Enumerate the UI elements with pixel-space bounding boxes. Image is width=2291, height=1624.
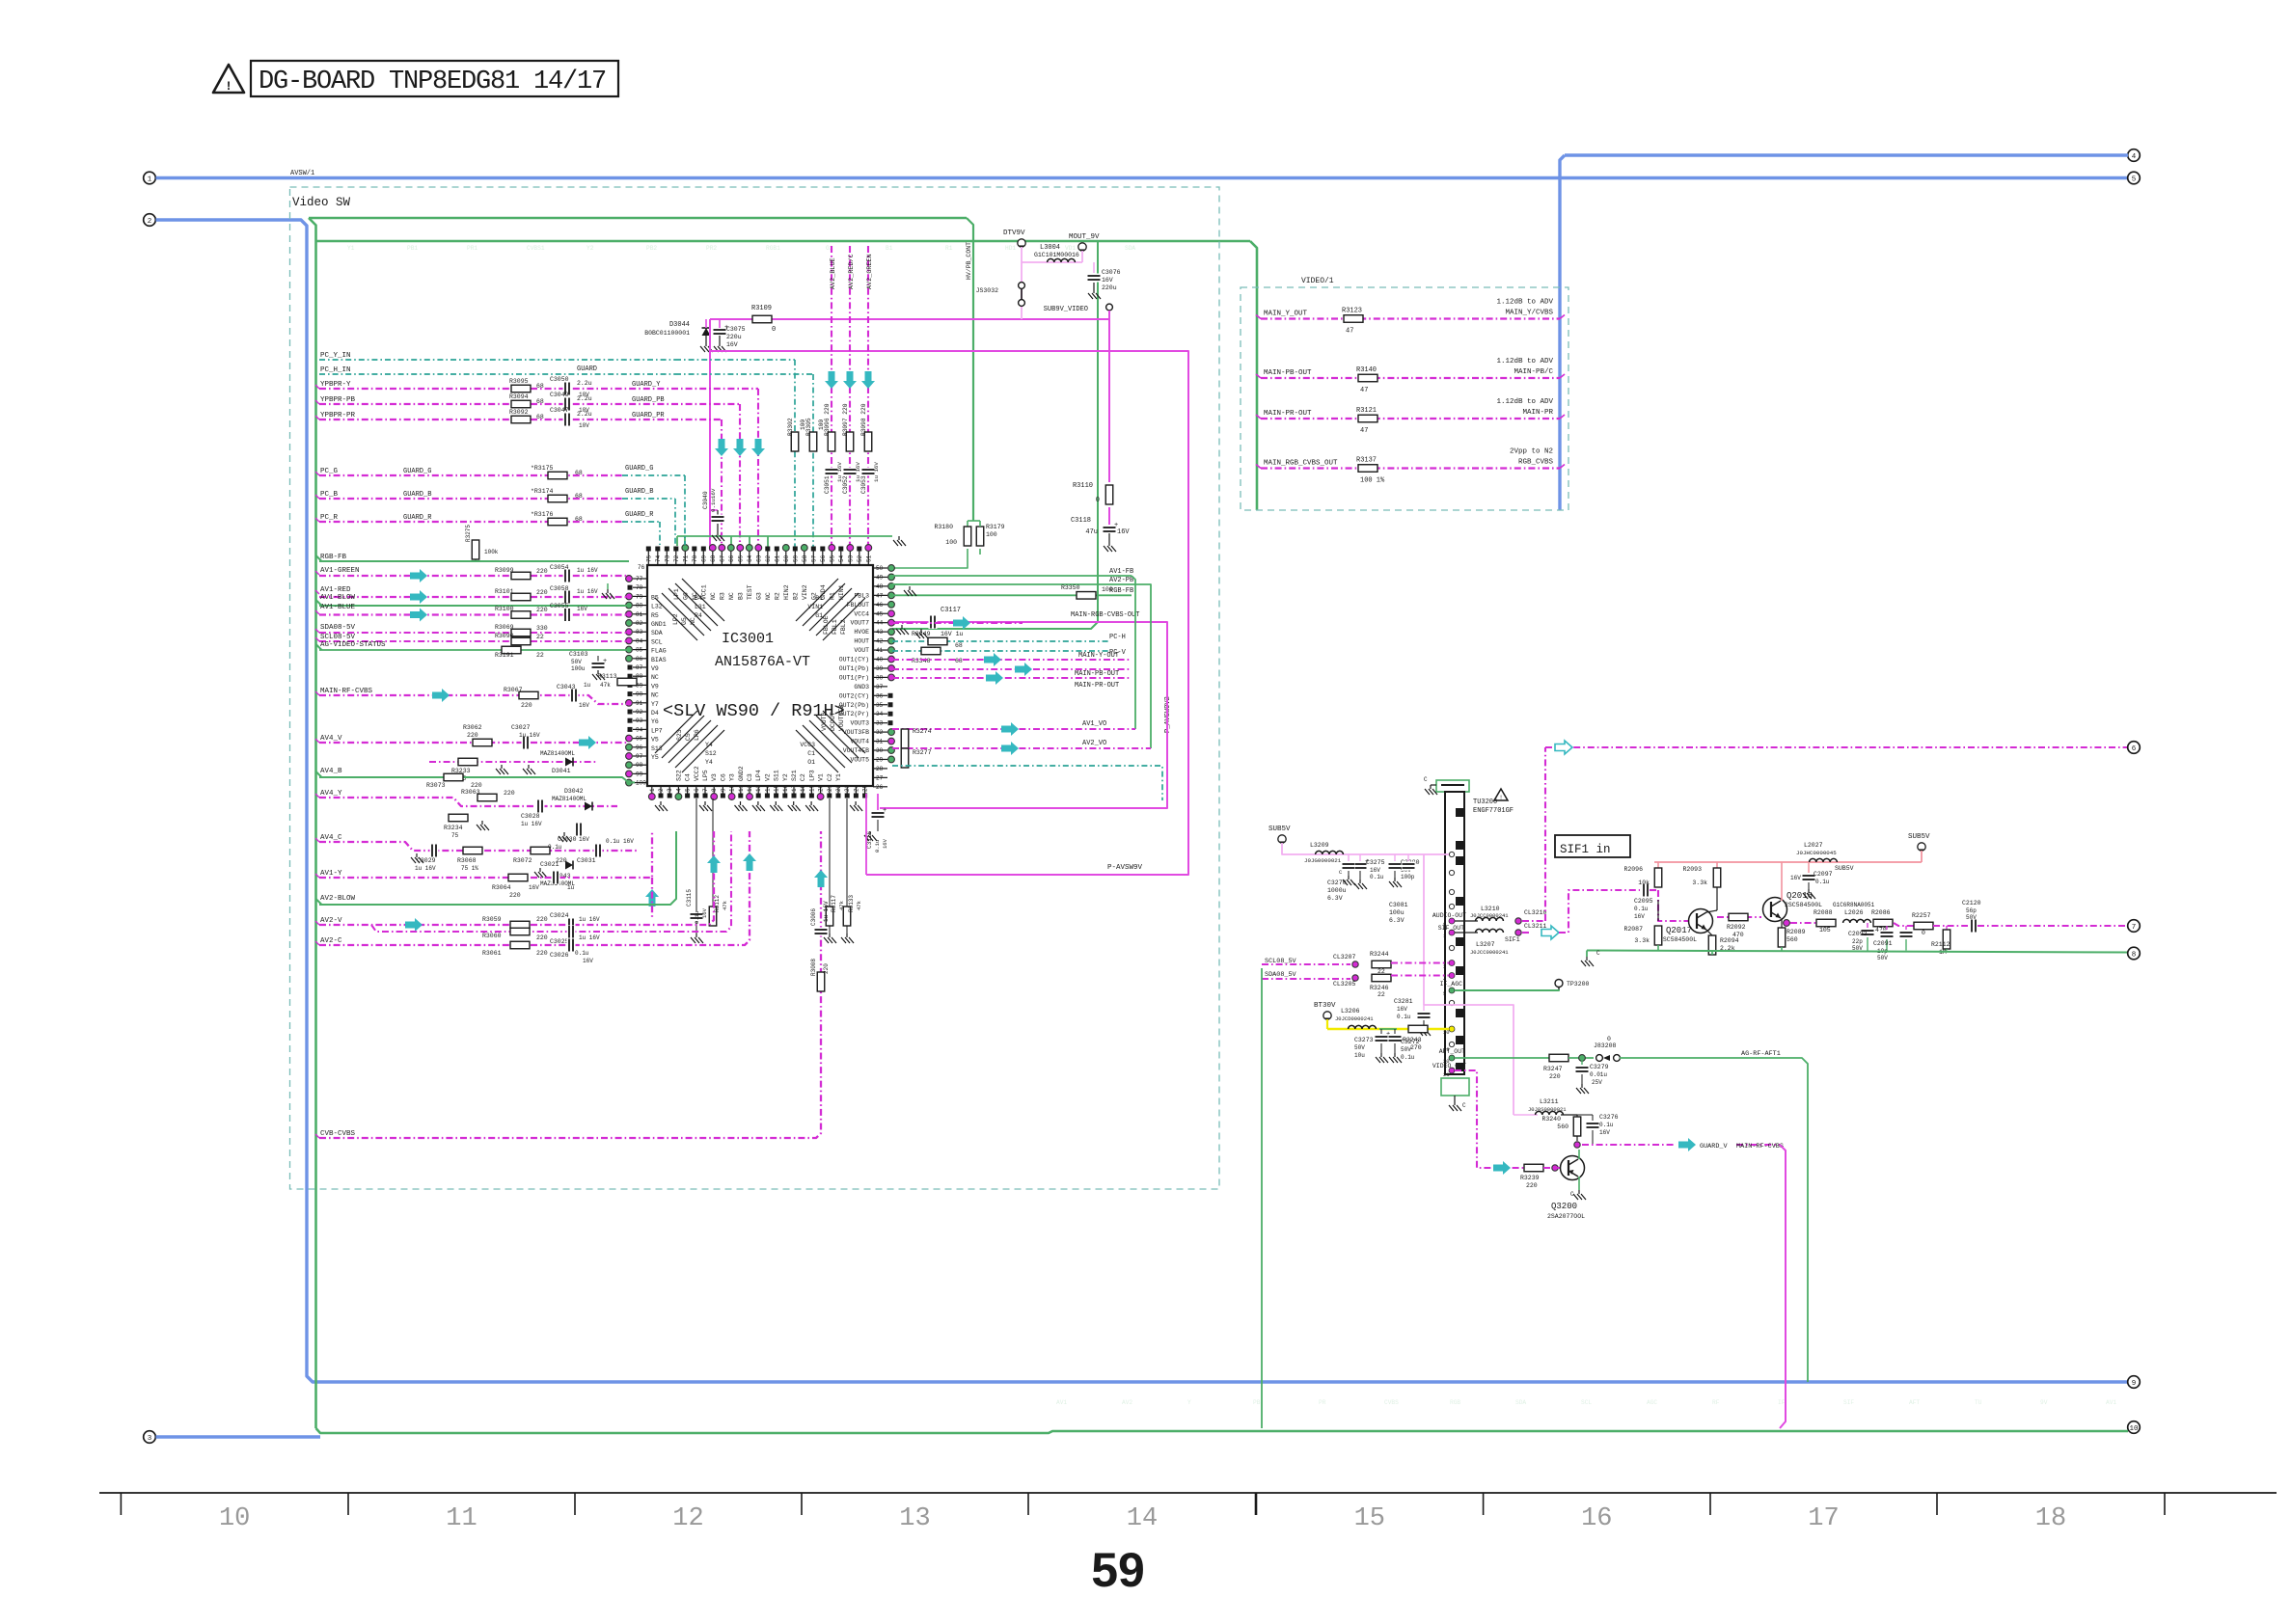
capacitor C3273 bbox=[1380, 1029, 1382, 1034]
svg-text:NC: NC bbox=[651, 692, 659, 699]
svg-text:PC_H_IN: PC_H_IN bbox=[320, 366, 351, 374]
wire dash jog bbox=[1894, 923, 1914, 926]
svg-text:100p: 100p bbox=[1401, 874, 1415, 880]
tuner pin dots bbox=[1449, 852, 1454, 856]
wire green I2C drop bbox=[1261, 968, 1263, 1428]
capacitor C3081 bbox=[1407, 854, 1409, 861]
svg-text:220u: 220u bbox=[1102, 284, 1117, 291]
svg-text:DG-BOARD TNP8EDG81 14/17: DG-BOARD TNP8EDG81 14/17 bbox=[259, 68, 606, 96]
svg-text:C3276: C3276 bbox=[1599, 1114, 1619, 1121]
svg-text:*R3175: *R3175 bbox=[531, 465, 554, 472]
resistor R3061 bbox=[510, 941, 530, 949]
svg-text:220: 220 bbox=[509, 892, 521, 899]
wire magenta vertical R3110 branch bbox=[1108, 319, 1110, 482]
svg-text:18: 18 bbox=[800, 784, 806, 792]
svg-text:45: 45 bbox=[876, 610, 884, 617]
capacitor C3103 bbox=[597, 656, 599, 662]
IC3001 corner fan bottom-right bbox=[823, 711, 865, 753]
svg-text:MAIN-Y-OUT: MAIN-Y-OUT bbox=[1078, 652, 1119, 660]
ground C3116 bbox=[869, 831, 871, 835]
svg-text:1: 1 bbox=[148, 176, 152, 183]
svg-text:LP7: LP7 bbox=[651, 727, 663, 734]
svg-text:SCL: SCL bbox=[651, 638, 663, 645]
svg-text:21: 21 bbox=[827, 784, 833, 792]
svg-text:3: 3 bbox=[1443, 963, 1446, 970]
wire green pin bus above IC bbox=[677, 535, 892, 537]
wire blue node2 to bottom bus bbox=[156, 220, 2129, 1382]
op-amp IC3001 AN15876A-VT body bbox=[647, 565, 873, 786]
node CL3207 bbox=[1352, 961, 1358, 967]
node 8 off-page connector bbox=[2128, 947, 2141, 960]
wire AV1-FB bbox=[892, 575, 1132, 577]
svg-text:V2: V2 bbox=[764, 773, 771, 781]
svg-text:0: 0 bbox=[1096, 497, 1100, 504]
svg-text:PR2: PR2 bbox=[706, 245, 717, 252]
svg-text:PC_R: PC_R bbox=[320, 514, 339, 522]
svg-text:50: 50 bbox=[876, 565, 884, 572]
svg-text:9V: 9V bbox=[2040, 1399, 2048, 1406]
svg-text:G1C101M00016: G1C101M00016 bbox=[1034, 252, 1079, 258]
svg-text:PC-H: PC-H bbox=[1109, 634, 1126, 641]
wire pink DTV9V vertical bbox=[1021, 247, 1023, 319]
svg-text:R3180: R3180 bbox=[934, 524, 953, 530]
capacitor C2091 bbox=[1886, 926, 1888, 930]
svg-text:100: 100 bbox=[986, 531, 997, 538]
svg-text:R3: R3 bbox=[719, 592, 725, 600]
wire MAIN-PR-OUT bbox=[892, 677, 1132, 679]
resistor R3133 bbox=[846, 798, 848, 907]
wire green bottom bus to node 10 bbox=[316, 1428, 2129, 1433]
svg-text:220: 220 bbox=[536, 934, 548, 941]
svg-text:S12: S12 bbox=[705, 750, 717, 757]
svg-text:SIF: SIF bbox=[1843, 1399, 1854, 1406]
svg-text:R3140: R3140 bbox=[1356, 366, 1377, 374]
wire Q2016 emitter bbox=[1781, 918, 1783, 923]
svg-text:AV1: AV1 bbox=[2106, 1399, 2116, 1406]
resistor R3244 bbox=[1372, 961, 1391, 968]
resistor R2092 bbox=[1729, 913, 1748, 921]
resistor R3137 bbox=[1358, 465, 1377, 473]
svg-text:R3247: R3247 bbox=[1543, 1066, 1563, 1072]
resistor R3140 bbox=[1358, 374, 1377, 382]
svg-text:R2: R2 bbox=[774, 592, 780, 600]
svg-text:MOUT_9V: MOUT_9V bbox=[1069, 233, 1100, 241]
svg-text:4: 4 bbox=[675, 788, 682, 792]
svg-text:MAIN-RF-CVBS: MAIN-RF-CVBS bbox=[320, 688, 373, 695]
svg-text:D3042: D3042 bbox=[564, 788, 584, 795]
wire teal guard corner Y bbox=[675, 359, 795, 361]
svg-text:OUT1(Pr): OUT1(Pr) bbox=[839, 674, 869, 681]
svg-text:Y5: Y5 bbox=[651, 754, 659, 761]
svg-text:GND2: GND2 bbox=[738, 766, 745, 781]
svg-text:GUARD_Y: GUARD_Y bbox=[632, 381, 661, 389]
resistor R3097 bbox=[846, 432, 854, 451]
svg-text:0.1u: 0.1u bbox=[694, 911, 700, 924]
svg-text:220: 220 bbox=[536, 589, 548, 596]
node 2 off-page connector bbox=[144, 214, 156, 227]
svg-text:220: 220 bbox=[536, 916, 548, 923]
svg-text:AV2-C: AV2-C bbox=[320, 937, 342, 945]
svg-text:R3123: R3123 bbox=[1342, 308, 1362, 315]
node 4 off-page connector bbox=[2128, 149, 2141, 162]
wire Q3200 collector ground bbox=[1578, 1177, 1580, 1190]
svg-text:R3133: R3133 bbox=[848, 895, 855, 912]
svg-text:81: 81 bbox=[636, 611, 643, 618]
svg-text:220: 220 bbox=[467, 732, 478, 739]
svg-text:9: 9 bbox=[2132, 1380, 2137, 1388]
svg-text:G6: G6 bbox=[682, 592, 689, 600]
svg-text:96: 96 bbox=[636, 744, 643, 751]
inductor L2027 bbox=[1810, 858, 1838, 862]
svg-text:R3069: R3069 bbox=[495, 624, 514, 631]
svg-text:C3273: C3273 bbox=[1354, 1037, 1374, 1043]
svg-text:2: 2 bbox=[148, 218, 152, 226]
resistor R2086 bbox=[1873, 919, 1893, 927]
node Q3200 emitter bbox=[1574, 1142, 1580, 1148]
title warning triangle bbox=[213, 65, 244, 93]
svg-text:R2257: R2257 bbox=[1912, 912, 1931, 919]
svg-text:Q3200: Q3200 bbox=[1551, 1202, 1577, 1211]
svg-text:10: 10 bbox=[219, 1504, 250, 1533]
svg-text:37: 37 bbox=[876, 684, 884, 690]
svg-text:10u: 10u bbox=[1354, 1052, 1365, 1059]
svg-text:R3060: R3060 bbox=[482, 933, 502, 939]
svg-text:R3061: R3061 bbox=[482, 950, 502, 957]
svg-text:L2026: L2026 bbox=[1844, 909, 1864, 916]
svg-text:99: 99 bbox=[636, 771, 643, 777]
svg-text:C3031: C3031 bbox=[577, 857, 596, 864]
svg-text:JS3032: JS3032 bbox=[976, 287, 999, 294]
svg-text:GND3: GND3 bbox=[854, 684, 869, 690]
svg-text:16V: 16V bbox=[1370, 867, 1380, 874]
svg-text:1u 16V: 1u 16V bbox=[415, 865, 436, 872]
svg-text:AV4_C: AV4_C bbox=[320, 834, 342, 842]
svg-text:5: 5 bbox=[2132, 176, 2137, 183]
svg-text:25: 25 bbox=[862, 784, 869, 792]
svg-text:560: 560 bbox=[1786, 936, 1798, 943]
svg-text:GUARD_B: GUARD_B bbox=[403, 491, 431, 499]
svg-text:20: 20 bbox=[818, 784, 825, 792]
IC3001 corner fan top-right bbox=[823, 598, 865, 640]
ground AV4 branch bbox=[501, 765, 503, 769]
svg-text:R3234: R3234 bbox=[444, 825, 463, 831]
power MOUT_9V bbox=[1078, 243, 1086, 251]
svg-text:FLAG: FLAG bbox=[651, 648, 667, 655]
svg-text:C3028: C3028 bbox=[521, 813, 540, 820]
svg-text:OUT1(CY): OUT1(CY) bbox=[839, 657, 869, 663]
inductor L3210 bbox=[1476, 917, 1504, 921]
svg-text:J0JCC0000241: J0JCC0000241 bbox=[1470, 949, 1509, 956]
svg-text:B3: B3 bbox=[737, 592, 744, 600]
svg-text:VIN1: VIN1 bbox=[807, 604, 823, 610]
svg-text:R3098 220: R3098 220 bbox=[860, 403, 867, 436]
svg-text:56: 56 bbox=[820, 555, 827, 562]
svg-text:220: 220 bbox=[823, 963, 830, 974]
svg-text:TP3200: TP3200 bbox=[1567, 981, 1590, 988]
wire Q2016 collector bbox=[1781, 862, 1783, 901]
svg-text:18: 18 bbox=[2035, 1504, 2066, 1533]
svg-text:AN15876A-VT: AN15876A-VT bbox=[715, 654, 810, 670]
svg-text:65: 65 bbox=[737, 555, 744, 562]
svg-text:R3094: R3094 bbox=[509, 393, 529, 400]
IC3001 corner fan top-left bbox=[655, 598, 697, 640]
power DTV9V bbox=[1018, 239, 1025, 247]
svg-text:76: 76 bbox=[638, 564, 645, 571]
resistor R3277 bbox=[901, 748, 909, 768]
svg-text:5: 5 bbox=[685, 788, 692, 792]
svg-text:SUB5V: SUB5V bbox=[1268, 826, 1291, 833]
svg-text:J0JCC0000241: J0JCC0000241 bbox=[1470, 912, 1509, 919]
svg-text:MAIN-RF-CVBS: MAIN-RF-CVBS bbox=[1736, 1143, 1784, 1150]
arrow AV2_VO bbox=[1001, 742, 1019, 755]
svg-text:R3302: R3302 bbox=[787, 418, 794, 436]
arrow AV4_V bbox=[579, 736, 596, 749]
wire MAIN_RGB_CVBS_OUT to ADV bbox=[1261, 467, 1560, 469]
resistor *R3175 bbox=[548, 472, 567, 479]
svg-text:44: 44 bbox=[876, 620, 884, 627]
svg-text:R3246: R3246 bbox=[1370, 985, 1389, 991]
wire magenta SUB9V to rail bbox=[1108, 311, 1110, 319]
arrow VIDEO-OUT bbox=[1493, 1161, 1511, 1175]
svg-text:56p: 56p bbox=[1966, 907, 1977, 914]
svg-text:22: 22 bbox=[1377, 991, 1385, 998]
wire green bus risers bbox=[684, 536, 686, 551]
svg-text:69: 69 bbox=[700, 555, 707, 562]
svg-text:IF: IF bbox=[1778, 1399, 1786, 1406]
resistor R3094 bbox=[511, 400, 531, 408]
svg-text:4: 4 bbox=[2132, 153, 2137, 161]
arrow AV1-Y riser bbox=[645, 889, 659, 907]
svg-text:R3063: R3063 bbox=[461, 789, 480, 796]
resistor R3068 bbox=[463, 847, 482, 854]
svg-text:GUARD_PR: GUARD_PR bbox=[632, 412, 665, 420]
svg-text:87: 87 bbox=[636, 664, 643, 671]
svg-text:J0JCD0000241: J0JCD0000241 bbox=[1335, 1015, 1374, 1022]
svg-text:92: 92 bbox=[636, 709, 643, 716]
svg-text:C3026: C3026 bbox=[550, 952, 569, 959]
svg-text:5: 5 bbox=[1443, 990, 1446, 997]
svg-text:21: 21 bbox=[1443, 1071, 1450, 1078]
wire green vertical into VIDEO/1 box bbox=[1250, 241, 1257, 510]
svg-text:2: 2 bbox=[658, 788, 665, 792]
ground R3133 bbox=[846, 926, 848, 934]
capacitor C3058 bbox=[563, 590, 572, 604]
wire AV2-V branch2 bbox=[371, 831, 731, 932]
arrow VOUT7 bbox=[953, 616, 970, 630]
svg-text:73: 73 bbox=[664, 555, 670, 562]
svg-text:220: 220 bbox=[536, 950, 548, 957]
inductor L2026 bbox=[1843, 919, 1871, 923]
svg-text:R1: R1 bbox=[945, 245, 953, 252]
svg-text:FBL3: FBL3 bbox=[854, 592, 869, 599]
svg-text:8: 8 bbox=[2132, 951, 2137, 959]
svg-text:67: 67 bbox=[719, 555, 725, 562]
resistor R3233 bbox=[458, 758, 477, 766]
svg-text:AV1: AV1 bbox=[1056, 1399, 1067, 1406]
node 3 off-page connector bbox=[144, 1431, 156, 1444]
svg-text:AV2_GREEN: AV2_GREEN bbox=[866, 254, 874, 289]
svg-text:C3024: C3024 bbox=[550, 912, 569, 919]
svg-text:G5: G5 bbox=[681, 617, 688, 625]
wire AV2-PB bbox=[892, 583, 1132, 585]
capacitor C3024 bbox=[567, 918, 576, 932]
svg-text:R3101: R3101 bbox=[495, 588, 514, 595]
svg-text:54: 54 bbox=[838, 555, 845, 562]
capacitor C3276 bbox=[1592, 1115, 1594, 1121]
arrow AV1-GREEN bbox=[410, 569, 427, 582]
svg-text:AV2_BLUE: AV2_BLUE bbox=[830, 257, 837, 289]
svg-text:S21: S21 bbox=[791, 770, 798, 781]
capacitor C3030 bbox=[575, 823, 584, 836]
wire teal GUARD_G vertical bbox=[684, 475, 686, 545]
svg-text:O1: O1 bbox=[807, 759, 815, 766]
node 1 off-page connector bbox=[144, 172, 156, 184]
svg-text:OUT2(Pr): OUT2(Pr) bbox=[839, 711, 869, 717]
svg-text:46: 46 bbox=[876, 602, 884, 609]
resistor R3073 bbox=[444, 773, 463, 781]
svg-text:R3275: R3275 bbox=[465, 525, 472, 542]
resistor *R3174 bbox=[548, 495, 567, 502]
capacitor C3054 bbox=[563, 569, 572, 582]
svg-text:DCOUT: DCOUT bbox=[830, 712, 836, 731]
svg-text:29: 29 bbox=[876, 756, 884, 763]
svg-text:Q2017: Q2017 bbox=[1666, 926, 1692, 935]
svg-text:2.2u: 2.2u bbox=[577, 411, 592, 418]
svg-text:C3117: C3117 bbox=[941, 607, 961, 614]
node Q2016 emitter bbox=[1784, 920, 1790, 927]
svg-text:L32: L32 bbox=[651, 604, 663, 610]
wire blue AVSW/1 bus to node 5 bbox=[156, 176, 2129, 179]
svg-text:LP3: LP3 bbox=[808, 770, 815, 781]
svg-text:1u 16V: 1u 16V bbox=[873, 462, 880, 482]
wire green fillets from left bus bbox=[316, 555, 322, 561]
wire AV1_VO bbox=[892, 728, 1135, 730]
svg-text:TEST: TEST bbox=[747, 584, 753, 600]
svg-text:DTV9V: DTV9V bbox=[1003, 230, 1025, 237]
svg-text:R3059: R3059 bbox=[482, 916, 502, 923]
svg-text:1u 16V: 1u 16V bbox=[823, 901, 830, 922]
svg-text:2SC584500L: 2SC584500L bbox=[1659, 936, 1697, 943]
svg-text:C3279: C3279 bbox=[1590, 1064, 1609, 1070]
svg-text:74: 74 bbox=[655, 555, 662, 562]
svg-text:R5: R5 bbox=[651, 612, 659, 619]
svg-text:C3281: C3281 bbox=[1394, 998, 1413, 1005]
svg-text:VCC4: VCC4 bbox=[854, 610, 869, 617]
svg-text:C3047: C3047 bbox=[550, 407, 569, 414]
svg-text:16V 1u: 16V 1u bbox=[941, 631, 964, 637]
svg-text:R3191: R3191 bbox=[495, 652, 514, 659]
svg-text:GND1: GND1 bbox=[651, 621, 667, 628]
svg-text:GUARD_B: GUARD_B bbox=[625, 488, 653, 496]
svg-text:LP5: LP5 bbox=[702, 770, 709, 781]
svg-text:VOUT3: VOUT3 bbox=[850, 720, 869, 727]
transistor Q2017 bbox=[1689, 909, 1713, 934]
svg-text:SIF_OUT: SIF_OUT bbox=[1438, 925, 1464, 932]
svg-text:C6: C6 bbox=[720, 773, 726, 781]
resistor R3243 bbox=[1408, 1025, 1428, 1033]
svg-text:*R3174: *R3174 bbox=[531, 488, 554, 495]
svg-text:C: C bbox=[1570, 1191, 1574, 1198]
svg-text:75: 75 bbox=[451, 832, 459, 839]
resistor R3274 bbox=[901, 729, 909, 748]
svg-text:MAIN-PB-OUT: MAIN-PB-OUT bbox=[1075, 670, 1119, 678]
svg-text:100k: 100k bbox=[484, 549, 499, 555]
wire dash to node 7 bbox=[1977, 925, 2128, 927]
svg-text:S11: S11 bbox=[774, 770, 780, 781]
svg-text:15: 15 bbox=[774, 784, 780, 792]
tuner TU3200 body bbox=[1445, 792, 1464, 1074]
wire green vertical AV2-PB drop bbox=[1132, 584, 1151, 748]
wire MAIN_Y_OUT to ADV bbox=[1261, 317, 1560, 319]
wire GUARD teal vertical R3302 bbox=[794, 360, 796, 551]
IC3001 bottom pins 1-25 bbox=[651, 786, 653, 794]
resistor R3072 bbox=[531, 847, 550, 854]
svg-text:3: 3 bbox=[148, 1435, 152, 1443]
svg-text:GUARD: GUARD bbox=[577, 365, 597, 373]
svg-text:26: 26 bbox=[876, 784, 884, 791]
capacitor C3052 bbox=[843, 468, 857, 476]
svg-text:98: 98 bbox=[636, 762, 643, 769]
svg-text:FBL1: FBL1 bbox=[832, 619, 838, 635]
wire magenta 9V rail lower long bbox=[710, 351, 1188, 875]
wire emitter dash out bbox=[1790, 922, 1819, 924]
svg-text:0: 0 bbox=[1922, 930, 1925, 936]
svg-text:B0BC01100001: B0BC01100001 bbox=[644, 330, 690, 337]
svg-text:R3073: R3073 bbox=[426, 782, 446, 789]
ground C3030 bbox=[563, 832, 565, 836]
svg-text:3.3k: 3.3k bbox=[1692, 880, 1707, 886]
svg-text:53: 53 bbox=[847, 555, 854, 562]
ground pin82 bbox=[607, 583, 609, 589]
svg-text:R3274: R3274 bbox=[913, 728, 932, 735]
svg-text:220u: 220u bbox=[726, 334, 742, 340]
wire audio dash to node6 bbox=[1522, 920, 1545, 922]
svg-text:PC_B: PC_B bbox=[320, 491, 339, 499]
svg-text:C1: C1 bbox=[807, 750, 815, 757]
svg-text:1u: 1u bbox=[584, 682, 591, 689]
svg-text:YPBPR-PR: YPBPR-PR bbox=[320, 412, 356, 420]
wire MAIN-Y-OUT bbox=[892, 659, 1132, 661]
svg-text:VIDEO/1: VIDEO/1 bbox=[1301, 277, 1334, 285]
svg-text:D3041: D3041 bbox=[552, 768, 571, 774]
resistor R3247 bbox=[1549, 1054, 1568, 1062]
svg-text:Y7: Y7 bbox=[651, 701, 659, 708]
node Q3200 base bbox=[1552, 1165, 1558, 1171]
svg-text:SUB5V: SUB5V bbox=[1835, 865, 1854, 872]
svg-text:VCC3: VCC3 bbox=[800, 742, 815, 748]
svg-text:C3272: C3272 bbox=[1401, 1039, 1420, 1045]
svg-text:1000u: 1000u bbox=[1327, 887, 1347, 894]
svg-text:SIF1 in: SIF1 in bbox=[1560, 843, 1611, 856]
svg-text:GUARD_PB: GUARD_PB bbox=[632, 396, 665, 404]
svg-text:0.1u: 0.1u bbox=[1815, 879, 1830, 885]
svg-text:C2120: C2120 bbox=[1962, 900, 1981, 907]
svg-text:0.1u: 0.1u bbox=[1634, 906, 1649, 912]
wire green AFT mid bbox=[1568, 1057, 1594, 1059]
svg-text:C2091: C2091 bbox=[1873, 940, 1893, 947]
power SUB5V left bbox=[1278, 835, 1286, 843]
svg-text:0: 0 bbox=[1607, 1036, 1611, 1042]
svg-text:Y2: Y2 bbox=[782, 773, 789, 781]
svg-text:MAIN-PB-OUT: MAIN-PB-OUT bbox=[1264, 369, 1312, 377]
svg-text:0.1u: 0.1u bbox=[1397, 1014, 1411, 1020]
wire PC-H bbox=[892, 640, 1109, 642]
svg-text:AV1-BLOW: AV1-BLOW bbox=[320, 594, 356, 602]
svg-text:78: 78 bbox=[636, 584, 643, 591]
wire AV2_BLUE vertical bbox=[831, 246, 832, 551]
svg-text:16V: 16V bbox=[1634, 913, 1645, 920]
svg-text:HD1: HD1 bbox=[1005, 245, 1016, 252]
